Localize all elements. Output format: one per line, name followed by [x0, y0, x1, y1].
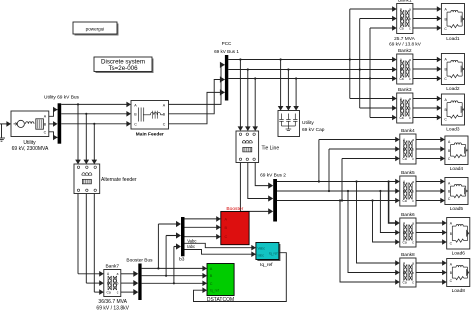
svg-text:b3: b3	[179, 257, 185, 263]
svg-text:Load6: Load6	[452, 250, 466, 256]
svg-text:Iabc: Iabc	[258, 254, 265, 258]
svg-text:Utility: Utility	[23, 140, 36, 146]
svg-text:Ca: Ca	[403, 280, 407, 284]
svg-text:B: B	[107, 282, 109, 286]
svg-text:Iabc: Iabc	[187, 244, 195, 249]
svg-text:Vabc: Vabc	[187, 238, 196, 243]
svg-text:Bank6: Bank6	[401, 212, 415, 218]
svg-text:B: B	[403, 147, 405, 151]
svg-text:69 kV / 13.8kV: 69 kV / 13.8kV	[96, 306, 129, 311]
svg-text:b: b	[412, 189, 414, 193]
svg-text:Ca: Ca	[107, 291, 111, 295]
svg-text:Load1: Load1	[446, 36, 460, 42]
svg-text:a: a	[409, 7, 411, 11]
svg-text:Iq_ref: Iq_ref	[210, 289, 219, 293]
svg-text:C: C	[134, 123, 137, 127]
svg-text:Tie Line: Tie Line	[262, 146, 280, 152]
svg-text:Main Feeder: Main Feeder	[136, 132, 164, 138]
svg-text:b: b	[409, 67, 411, 71]
svg-text:B: B	[403, 189, 405, 193]
svg-text:B: B	[403, 231, 405, 235]
svg-text:a: a	[412, 261, 414, 265]
svg-text:a: a	[412, 180, 414, 184]
svg-text:Ts=2e-006: Ts=2e-006	[108, 65, 138, 72]
svg-text:b: b	[412, 231, 414, 235]
svg-text:PCC: PCC	[222, 41, 232, 46]
svg-text:b: b	[117, 282, 119, 286]
svg-text:B: B	[400, 17, 402, 21]
svg-text:69 kV Cap: 69 kV Cap	[302, 127, 325, 133]
svg-text:a: a	[409, 58, 411, 62]
svg-text:Load2: Load2	[446, 86, 460, 92]
svg-text:a: a	[412, 138, 414, 142]
svg-text:a: a	[117, 272, 119, 276]
svg-text:C: C	[163, 123, 166, 127]
svg-text:Utility 69 kV Bus: Utility 69 kV Bus	[44, 95, 80, 101]
svg-text:a: a	[412, 221, 414, 225]
svg-text:B: B	[210, 274, 213, 278]
svg-text:69 kV / 13.8 kV: 69 kV / 13.8 kV	[389, 41, 422, 46]
svg-text:C: C	[225, 235, 228, 239]
svg-text:Bank5: Bank5	[401, 170, 415, 176]
svg-text:Bank3: Bank3	[398, 87, 412, 93]
svg-text:Iq_ref: Iq_ref	[260, 262, 273, 268]
svg-text:Vabc: Vabc	[258, 246, 266, 250]
svg-text:Load8: Load8	[452, 288, 466, 294]
svg-text:36/36.7 MVA: 36/36.7 MVA	[98, 299, 127, 305]
svg-text:Bank7: Bank7	[105, 263, 119, 269]
svg-text:B: B	[400, 106, 402, 110]
svg-text:Ca: Ca	[399, 116, 403, 120]
svg-text:DSTATCOM: DSTATCOM	[207, 297, 234, 303]
svg-text:Bank4: Bank4	[401, 128, 415, 134]
svg-text:Bank1: Bank1	[398, 0, 412, 3]
svg-text:Load5: Load5	[450, 206, 464, 212]
svg-text:Ca: Ca	[403, 199, 407, 203]
svg-text:Ca: Ca	[399, 26, 403, 30]
svg-text:B: B	[403, 271, 405, 275]
svg-text:b: b	[412, 271, 414, 275]
svg-text:Load3: Load3	[446, 126, 460, 132]
svg-text:Iq_ref: Iq_ref	[269, 252, 278, 256]
svg-text:A: A	[210, 267, 213, 271]
svg-text:Ca: Ca	[399, 77, 403, 81]
svg-text:Bank2: Bank2	[398, 48, 412, 54]
svg-text:69 kV Bus 1: 69 kV Bus 1	[214, 49, 239, 54]
svg-text:b: b	[412, 147, 414, 151]
svg-text:Bank8: Bank8	[401, 252, 415, 258]
svg-text:b: b	[409, 106, 411, 110]
svg-text:B: B	[400, 67, 402, 71]
svg-text:69 kV Bus 2: 69 kV Bus 2	[260, 172, 286, 178]
svg-text:a: a	[409, 97, 411, 101]
svg-text:b: b	[409, 17, 411, 21]
svg-text:Booster Bus: Booster Bus	[126, 258, 153, 264]
svg-text:Utility: Utility	[302, 120, 314, 126]
svg-text:Booster: Booster	[226, 206, 243, 212]
svg-text:69 kV, 2300MVA: 69 kV, 2300MVA	[12, 146, 49, 152]
svg-text:Ca: Ca	[403, 240, 407, 244]
svg-text:C: C	[210, 282, 213, 286]
svg-text:Alternate feeder: Alternate feeder	[101, 177, 137, 183]
svg-text:Load4: Load4	[450, 166, 464, 172]
svg-text:C: C	[44, 131, 47, 135]
svg-text:powergui: powergui	[86, 26, 105, 31]
svg-text:Ca: Ca	[403, 157, 407, 161]
